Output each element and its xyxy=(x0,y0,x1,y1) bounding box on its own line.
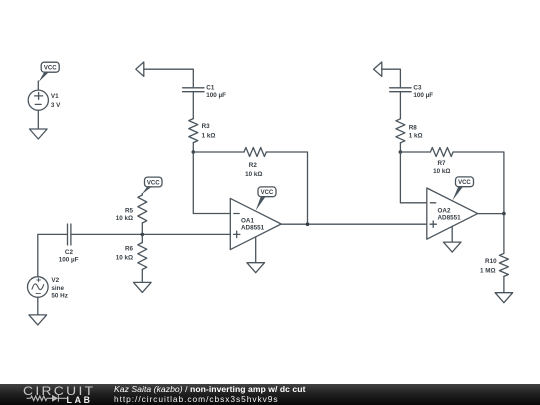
wire node down to R10 xyxy=(503,214,505,254)
wire R2 to output node xyxy=(266,152,307,224)
power flag VCC (OA2) xyxy=(452,177,473,201)
junction at R5/R6 node xyxy=(141,233,145,237)
label C2 100 uF xyxy=(59,249,79,264)
wire R5 to node xyxy=(141,223,143,243)
svg-text:V2: V2 xyxy=(51,277,59,284)
junction at OA1 output xyxy=(306,222,310,226)
resistor R5 xyxy=(138,195,147,223)
op-amp OA2 xyxy=(427,188,478,239)
svg-text:100 µF: 100 µF xyxy=(206,92,226,99)
label R6 10 kOhm xyxy=(116,245,134,261)
svg-text:sine: sine xyxy=(51,285,64,292)
label R3 1 kOhm xyxy=(202,123,216,139)
label R2 10 kOhm xyxy=(245,162,262,178)
power flag VCC (OA1) xyxy=(256,187,276,211)
ground (OA1) xyxy=(247,263,265,273)
svg-text:100 µF: 100 µF xyxy=(413,92,433,99)
wire junction to R2 xyxy=(193,151,244,153)
svg-text:R2: R2 xyxy=(249,162,258,169)
svg-text:VCC: VCC xyxy=(261,190,274,196)
svg-text:R10: R10 xyxy=(485,258,497,265)
capacitor C3 xyxy=(390,88,411,92)
svg-text:C2: C2 xyxy=(65,249,74,256)
svg-text:100 µF: 100 µF xyxy=(59,256,79,263)
svg-text:R7: R7 xyxy=(437,160,446,167)
svg-text:OA1: OA1 xyxy=(241,217,254,224)
svg-text:AD8551: AD8551 xyxy=(241,225,265,232)
resistor R3 xyxy=(189,119,198,143)
ground (OA2) xyxy=(443,242,461,252)
power flag VCC (V1) xyxy=(39,62,60,82)
svg-text:3 V: 3 V xyxy=(51,102,61,109)
footer bar xyxy=(0,384,540,405)
svg-text:10 kΩ: 10 kΩ xyxy=(433,168,450,175)
svg-text:R8: R8 xyxy=(409,125,418,132)
resistor R7 xyxy=(430,148,453,157)
capacitor C1 xyxy=(183,88,204,92)
wire R7 to output node xyxy=(453,152,504,214)
port triangle (left module) xyxy=(136,62,144,76)
wire OA1 output to OA2 + input xyxy=(281,223,427,225)
logo resistor zigzag xyxy=(31,396,47,401)
wire port to C1 xyxy=(144,69,194,87)
wire VCC to V1 xyxy=(37,81,39,90)
power flag VCC (R5) xyxy=(142,177,163,194)
CircuitLab logo word LAB xyxy=(67,396,93,405)
label C1 100 uF xyxy=(206,84,226,99)
wire OA1 to ground xyxy=(255,237,257,263)
CircuitLab logo schematic line xyxy=(0,384,70,405)
wire C3 to R8 xyxy=(399,92,401,118)
wire port to C3 xyxy=(382,69,401,87)
resistor R8 xyxy=(396,119,405,143)
label R5 10 kOhm xyxy=(116,207,134,222)
wire V2 to ground xyxy=(37,297,39,315)
label R7 10 kOhm xyxy=(433,160,450,175)
svg-text:AD8551: AD8551 xyxy=(438,215,462,222)
wire junction down to OA2 minus input xyxy=(400,152,426,203)
wire OA2 to ground xyxy=(451,226,453,242)
wire junction to R7 xyxy=(400,151,430,153)
svg-text:V1: V1 xyxy=(51,93,59,100)
resistor R10 xyxy=(499,253,508,276)
capacitor C2 xyxy=(68,224,71,245)
logo wire lead xyxy=(27,397,31,399)
wire C1 to R3 xyxy=(192,92,194,118)
ground (V2) xyxy=(29,315,47,325)
ground (R6) xyxy=(134,282,152,292)
wire R6 to ground xyxy=(141,270,143,283)
svg-text:OA2: OA2 xyxy=(438,207,451,214)
svg-text:1 kΩ: 1 kΩ xyxy=(202,133,216,140)
label R10 1 MOhm xyxy=(480,258,497,274)
wire R10 to ground xyxy=(503,276,505,292)
svg-text:R3: R3 xyxy=(202,123,211,130)
CircuitLab logo word CIRCUIT xyxy=(23,385,95,397)
voltage source V1 xyxy=(28,90,48,110)
resistor R6 xyxy=(138,243,147,270)
label C3 100 uF xyxy=(413,84,433,99)
svg-text:50 Hz: 50 Hz xyxy=(51,293,67,300)
svg-text:VCC: VCC xyxy=(458,180,471,186)
svg-text:1 kΩ: 1 kΩ xyxy=(409,133,423,140)
svg-text:VCC: VCC xyxy=(44,66,57,72)
junction below R8 xyxy=(399,150,403,154)
svg-text:C1: C1 xyxy=(206,84,215,91)
svg-text:10 kΩ: 10 kΩ xyxy=(245,171,262,178)
wire V1 to ground xyxy=(37,110,39,129)
wire junction down to OA1 minus input xyxy=(193,152,230,214)
svg-text:R6: R6 xyxy=(125,245,134,252)
svg-text:1 MΩ: 1 MΩ xyxy=(480,267,496,274)
label V1 3 V xyxy=(51,93,61,109)
op-amp OA1 xyxy=(230,198,281,249)
junction at OA2 output xyxy=(502,212,506,216)
wire C2 to OA1 + input xyxy=(71,233,230,235)
label R8 1 kOhm xyxy=(409,125,423,140)
wire R8 to junction xyxy=(399,143,401,152)
wire OA2 output to R10 node xyxy=(478,213,504,215)
wire R3 to junction xyxy=(192,143,194,152)
svg-text:10 kΩ: 10 kΩ xyxy=(116,254,133,261)
ground (R10) xyxy=(495,293,513,303)
junction below R3 xyxy=(192,150,196,154)
label V2 sine 50 Hz xyxy=(51,277,67,300)
url text xyxy=(114,395,279,403)
svg-text:10 kΩ: 10 kΩ xyxy=(116,215,133,222)
logo wire tail xyxy=(58,397,67,399)
label OA1 AD8551 xyxy=(241,217,265,231)
label OA2 AD8551 xyxy=(438,207,462,221)
title text xyxy=(114,385,305,394)
logo wire mid xyxy=(47,397,52,399)
wire VCC to R5 xyxy=(141,194,143,196)
resistor R2 xyxy=(244,148,266,157)
logo diode xyxy=(52,395,58,402)
wire V2 up to C2 row xyxy=(38,234,67,276)
ground (V1) xyxy=(30,129,48,139)
svg-text:R5: R5 xyxy=(125,207,134,214)
voltage source V2 xyxy=(28,277,49,298)
svg-text:C3: C3 xyxy=(413,84,422,91)
port triangle (right module) xyxy=(374,62,382,76)
svg-text:VCC: VCC xyxy=(147,180,160,186)
